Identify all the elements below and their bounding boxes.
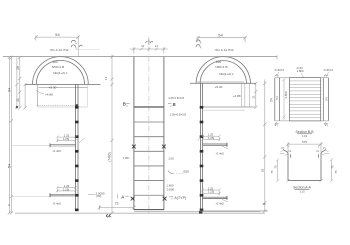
section A-A: left angle detail (283, 150, 290, 160)
svg-text:75: 75 (270, 170, 274, 174)
left view: hoop inner arc (36, 60, 84, 84)
svg-text:54: 54 (270, 98, 274, 102)
svg-text:14: 14 (104, 76, 108, 80)
left view: hoop outer arc (33, 57, 89, 85)
left view: height dim line 7400 (110, 55, 113, 215)
section marker A right (TYP) (169, 197, 173, 200)
centerline mark CL (106, 214, 111, 217)
right view: hoop inner arc (200, 61, 246, 84)
svg-text:54: 54 (218, 32, 223, 37)
left view: parapet bottom line (37, 106, 87, 108)
svg-text:14: 14 (155, 44, 158, 48)
svg-text:0.800: 0.800 (167, 187, 175, 191)
left view: bracket extension line lower (12, 195, 75, 197)
svg-text:1.8b0: 1.8b0 (284, 91, 288, 99)
svg-text:2°j: 2°j (275, 123, 279, 127)
left view: parapet right face (87, 84, 89, 106)
right view: dim parapet (254, 82, 257, 109)
svg-text:Section B-B: Section B-B (296, 130, 315, 134)
svg-text:=Pu.b 1d.7N2: =Pu.b 1d.7N2 (214, 48, 233, 52)
svg-text:75: 75 (334, 170, 338, 174)
ladder center top symbol (146, 39, 153, 44)
svg-text:94: 94 (7, 88, 11, 92)
ladder bottom rung (thick) (134, 209, 164, 211)
svg-text:B: B (123, 102, 126, 107)
section A-A: side dim left (276, 158, 279, 182)
plan: left angle stile (275, 78, 280, 121)
svg-text:A(TYP): A(TYP) (174, 196, 186, 200)
section A-A: side dim right (330, 158, 333, 182)
left view: width dim 54 above hoop (34, 35, 80, 57)
svg-text:1×: 1× (316, 149, 319, 153)
svg-text:N50×1.B: N50×1.B (215, 65, 227, 69)
left view: rivet note glyphs (71, 40, 82, 48)
svg-text:×1: ×1 (288, 149, 292, 153)
svg-text:+4.88: +4.88 (233, 94, 241, 98)
right view: spring line upper (197, 81, 244, 83)
svg-text:1.25j: 1.25j (63, 137, 69, 141)
svg-text:NΩ(1+2)´L: NΩ(1+2)´L (53, 71, 68, 75)
svg-text:150: 150 (216, 60, 222, 64)
right view: ground line (199, 210, 267, 212)
left view: rung end marks (75, 106, 79, 211)
plan: right angle stile (323, 78, 328, 121)
svg-text:-0.4x5: -0.4x5 (53, 149, 62, 153)
svg-text:≠=40×4: ≠=40×4 (324, 68, 334, 72)
svg-text:Section A-A: Section A-A (293, 185, 311, 189)
section A-A: right angle detail (318, 150, 325, 160)
ladder stringer right (163, 57, 165, 210)
top line end tick (276, 55, 278, 59)
svg-text:150: 150 (52, 60, 58, 64)
svg-text:Ø18: Ø18 (183, 170, 189, 174)
svg-text:21: 21 (16, 98, 20, 102)
section marker A left (116, 194, 118, 198)
right view: rung end marks (200, 106, 204, 211)
svg-text:1.25j: 1.25j (208, 190, 214, 194)
ladder rungs (134, 107, 164, 195)
right view: anchor leader (198, 137, 201, 140)
svg-text:73: 73 (115, 201, 119, 205)
left view: dim tick blob (16, 106, 18, 108)
svg-text:20: 20 (263, 202, 267, 206)
svg-text:1.8b0: 1.8b0 (297, 69, 304, 73)
svg-text:1:10: 1:10 (299, 189, 305, 193)
left view: parapet left face (36, 84, 38, 106)
left view: bracket extension line upper (12, 145, 50, 147)
svg-text:-0.4x5: -0.4x5 (216, 152, 225, 156)
left view: level leader (36, 91, 44, 94)
plan: corner angle marks (275, 74, 329, 125)
svg-text:=Pu.b 1d.7N2: =Pu.b 1d.7N2 (49, 48, 68, 52)
right view: wall bracket lower (201, 188, 221, 194)
top parapet line (3, 56, 277, 58)
ladder top rung (thick) (134, 106, 164, 108)
floor level line (134, 210, 260, 212)
svg-text:≠=40×4: ≠=40×4 (275, 68, 285, 72)
svg-text:28: 28 (16, 66, 20, 70)
right view: parapet bottom (203, 106, 255, 108)
ladder splice X markers (131, 145, 167, 201)
svg-text:NΩ(1+2)´L: NΩ(1+2)´L (219, 72, 234, 76)
left view: spring line (25, 83, 100, 85)
svg-text:2°j: 2°j (325, 123, 329, 127)
svg-text:54: 54 (7, 164, 11, 168)
left view: outer dim line (8, 56, 19, 215)
ground line (15, 212, 265, 214)
svg-text:29: 29 (261, 169, 265, 173)
left view: wall bracket lower (56, 186, 77, 192)
svg-text:-0.4x5: -0.4x5 (53, 202, 62, 206)
right view: rivet note glyphs (196, 40, 201, 48)
svg-text:+5.30: +5.30 (215, 85, 223, 89)
svg-text:54: 54 (275, 96, 279, 100)
svg-text:1.05 0.8×0.8: 1.05 0.8×0.8 (168, 96, 184, 100)
svg-text:B: B (173, 102, 176, 107)
section A-A: bottom ticks (286, 179, 322, 182)
svg-text:+4.88: +4.88 (45, 92, 53, 96)
svg-text:A: A (121, 195, 124, 200)
left view: anchor plate square (75, 104, 78, 107)
svg-text:75: 75 (331, 165, 335, 169)
right view: main dim vertical (263, 80, 266, 213)
ladder rung leader (168, 170, 173, 173)
svg-text:14: 14 (141, 44, 144, 48)
section A-A: top dim (286, 143, 322, 153)
svg-text:1.05×0.8×0.8: 1.05×0.8×0.8 (170, 112, 187, 116)
svg-text:°j: °j (287, 144, 289, 148)
svg-text:75: 75 (273, 165, 277, 169)
left view: inner dim line upper (18, 56, 27, 110)
svg-text:1.05: 1.05 (168, 156, 174, 160)
svg-text:1.25j: 1.25j (208, 136, 214, 140)
svg-text:54: 54 (55, 32, 60, 37)
svg-text:575: 575 (302, 140, 307, 144)
svg-text:(7400): (7400) (108, 152, 112, 161)
left view: label leader faint (75, 48, 100, 50)
svg-text:1°j: 1°j (323, 146, 326, 150)
section A-A: U profile (288, 160, 321, 181)
svg-text:N50×1.B: N50×1.B (52, 65, 64, 69)
left view: parapet top line (39, 86, 88, 88)
svg-text:(90): (90) (96, 194, 101, 198)
right view: parapet right face lines (241, 83, 249, 107)
svg-text:1°j: 1°j (281, 146, 284, 150)
right view: width dim 54 (196, 36, 247, 42)
right view: spring line (190, 82, 256, 84)
svg-text:9: 9 (7, 204, 11, 206)
svg-text:1.25j: 1.25j (63, 187, 69, 191)
svg-text:j°: j° (317, 144, 320, 148)
svg-text:21: 21 (252, 95, 256, 99)
right view: wall bracket upper (201, 135, 221, 141)
left view: wall bracket upper (56, 136, 77, 143)
left view: parapet bottom dotted (37, 105, 75, 107)
svg-text:-0.4x5: -0.4x5 (216, 201, 225, 205)
svg-text:+5.30: +5.30 (49, 85, 57, 89)
svg-text:54: 54 (324, 97, 328, 101)
right view: hoop outer arc (196, 57, 250, 84)
ladder top dim line (130, 47, 168, 53)
ladder stringer left (133, 57, 135, 210)
svg-text:1:10: 1:10 (302, 134, 308, 138)
right view: base plate (199, 211, 202, 214)
right view: stringer (double line) (199, 83, 201, 211)
plan: inner vertical dim (282, 78, 285, 120)
svg-text:1.05×: 1.05× (123, 156, 130, 160)
plan: grating hatched panel (290, 81, 321, 118)
ladder bottom dim 73 (98, 205, 136, 209)
section marker B right (168, 104, 171, 107)
ladder centerline (148, 37, 150, 215)
left view: ladder stringer (double line) (75, 84, 77, 211)
